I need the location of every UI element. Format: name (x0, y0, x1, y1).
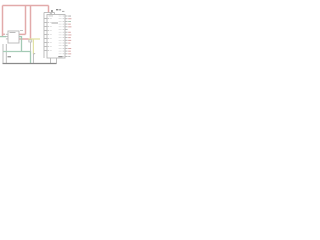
wire VCC drop A (25, 6, 27, 35)
wire green bottom (22, 52, 31, 64)
supply flag triangle (34, 53, 36, 55)
module pin stub left 1 (6, 33, 8, 35)
wire VCC drop B to module (19, 38, 29, 40)
wire VCC drop B (30, 6, 32, 40)
wire crystal right drop (54, 13, 56, 15)
module U2 box (8, 31, 19, 43)
IC U1 part label (52, 22, 59, 23)
wire VCC top bus (3, 5, 49, 7)
right net label gray row1 (68, 15, 71, 18)
crystal Q1 body (50, 13, 52, 15)
wire gnd left vertical 2 (5, 44, 7, 64)
label bottom left (8, 56, 12, 57)
wire green right down (19, 37, 22, 52)
IC left pins (44, 19, 47, 51)
label far bottom right (68, 55, 70, 58)
ground bus bottom (3, 63, 57, 65)
wire IC bottom stub 1 (50, 58, 52, 64)
wire green gnd horizontal (3, 51, 22, 53)
right net labels red (68, 18, 71, 54)
module pin stub left 2 (6, 36, 8, 38)
IC right pin names (59, 16, 62, 57)
label near module top right (20, 29, 23, 32)
label 16MHz part1 (56, 9, 58, 10)
IC U1 title (49, 15, 54, 18)
component on drop B (29, 40, 32, 42)
wire VCC drop A to module (19, 33, 26, 35)
module pin stub left 3 (6, 38, 8, 40)
IC left pin names (50, 18, 52, 51)
wire left pin bus (43, 13, 45, 59)
IC left pin numbers (48, 18, 50, 51)
wire gnd left vertical 1 (2, 44, 4, 64)
module U2 label (10, 32, 16, 33)
label crystal value dark (51, 10, 53, 11)
wire IC bottom stub 2 (56, 58, 58, 64)
right net label teal row3 (68, 20, 71, 23)
wire below component (30, 42, 32, 52)
wire yellow (29, 38, 41, 40)
net label red left (3, 33, 5, 35)
IC right pin numbers (63, 16, 65, 57)
label small top right (62, 11, 64, 12)
label bottom right (58, 56, 62, 57)
wire yellow branch down (32, 39, 34, 54)
label 16MHz part2 (59, 9, 61, 10)
wire VCC left drop (2, 6, 4, 37)
IC U1 body (47, 15, 65, 59)
supply flag stem (32, 54, 34, 64)
wire green left (0, 36, 6, 38)
wire VCC drop C (48, 6, 50, 13)
IC right pins (65, 16, 68, 57)
wire crystal top (44, 12, 55, 14)
